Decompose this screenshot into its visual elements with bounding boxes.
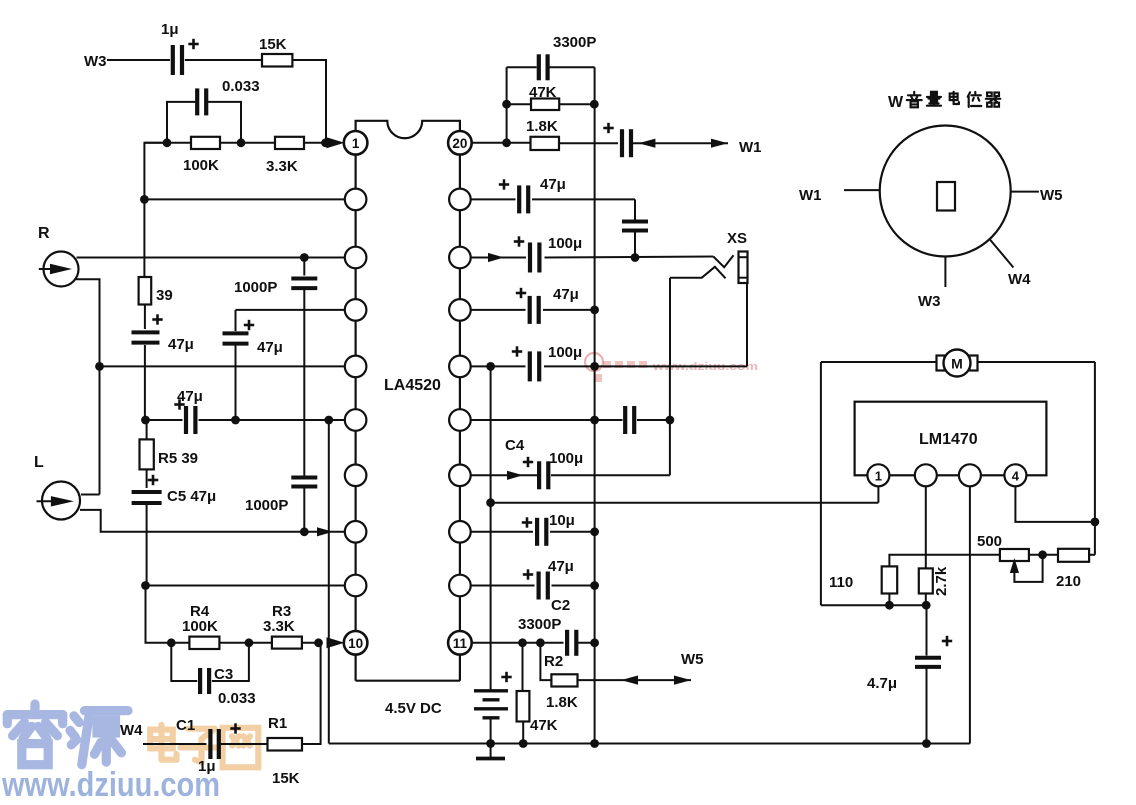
wire node A to 100K — [144, 142, 191, 144]
node A — [163, 138, 172, 147]
node 47K branch — [518, 638, 527, 647]
svg-text:1000P: 1000P — [234, 279, 277, 296]
node B — [237, 138, 246, 147]
IC pin 20 — [448, 131, 472, 155]
capacitor 4.7u — [926, 605, 928, 655]
ground symbol — [476, 757, 505, 761]
resistor 3.3K — [275, 137, 304, 149]
svg-text:100K: 100K — [182, 618, 218, 635]
wire row5 to pin 5 — [100, 365, 345, 367]
capacitor 47u row19 — [517, 185, 521, 213]
svg-text:1μ: 1μ — [161, 21, 179, 38]
svg-text:10: 10 — [348, 636, 363, 651]
capacitor row15 (nonpolar) — [623, 406, 627, 434]
node 500/210 — [1038, 550, 1047, 559]
LM1470 pin 2 — [915, 464, 937, 486]
capacitor C2 47u row12 — [536, 572, 540, 600]
svg-text:47K: 47K — [530, 717, 558, 734]
svg-text:210: 210 — [1056, 573, 1081, 590]
svg-text:1: 1 — [352, 136, 360, 151]
wire 3.3K to pin1 node — [304, 142, 326, 144]
wire C 47u to row6 — [144, 345, 146, 420]
svg-text:C4: C4 — [505, 437, 525, 454]
node LM feed — [486, 498, 495, 507]
svg-text:C2: C2 — [551, 597, 570, 614]
wire pin11 row — [471, 642, 564, 644]
svg-text:47μ: 47μ — [540, 176, 566, 193]
wire 1000P down through row4 — [303, 288, 305, 476]
svg-text:47μ: 47μ — [168, 336, 194, 353]
wire LM pin1 to feed — [877, 486, 879, 502]
resistor R5 39 (vertical) — [146, 420, 148, 439]
wire 2.7k to bottom row — [925, 594, 927, 606]
watermark char yuan — [70, 711, 128, 765]
svg-text:C5 47μ: C5 47μ — [167, 488, 216, 505]
svg-text:15K: 15K — [272, 770, 300, 787]
jack XS body — [739, 252, 748, 284]
IC pin 10 — [344, 631, 368, 655]
node row6 c — [324, 416, 333, 425]
wire 47K to rail — [522, 722, 524, 744]
wire pin18 row — [471, 257, 526, 259]
node row11/rail — [590, 638, 599, 647]
svg-text:3.3K: 3.3K — [266, 158, 298, 175]
capacitor 1u (electrolytic) — [171, 45, 175, 75]
wire 1000P no.2 to row8 — [303, 487, 305, 532]
svg-text:W3: W3 — [918, 293, 941, 310]
battery 4.5V DC — [490, 690, 492, 692]
IC pin 15 — [449, 409, 471, 431]
wire R1 up to pin10 node — [302, 643, 321, 744]
svg-text:4.7μ: 4.7μ — [867, 675, 897, 692]
svg-text:M: M — [951, 356, 963, 372]
svg-text:W1: W1 — [739, 139, 762, 156]
wire down to row10 — [146, 586, 172, 643]
wire row18 to XS — [545, 257, 714, 258]
wire XS lower drop — [669, 278, 671, 367]
wire 210 to right rail — [1089, 554, 1095, 556]
XS switch arm lower — [670, 267, 726, 279]
wire motor left vertical — [820, 362, 822, 605]
wire C1 to R1 — [219, 743, 268, 745]
wire pin15 row — [471, 419, 623, 421]
svg-text:47μ: 47μ — [548, 558, 574, 575]
wire row4 to pin 4 — [236, 309, 345, 311]
wire L lower tab to row8 — [80, 510, 345, 532]
svg-text:W4: W4 — [1008, 271, 1031, 288]
wire ground rail — [329, 743, 970, 745]
svg-text:R1: R1 — [268, 715, 287, 732]
IC pin 6 — [345, 409, 367, 431]
resistor 15K (top) — [262, 54, 292, 67]
LM1470 pin 1 — [867, 464, 889, 486]
capacitor to W1 (electrolytic) — [620, 129, 624, 157]
wire 500 wiper — [1014, 555, 1042, 582]
svg-text:39: 39 — [156, 287, 173, 304]
svg-text:www.dziuu.com: www.dziuu.com — [1, 766, 220, 800]
resistor 110 (vertical) — [882, 566, 898, 593]
svg-text:0.033: 0.033 — [222, 78, 260, 95]
svg-text:47μ: 47μ — [553, 286, 579, 303]
wire row16 to XS box — [544, 365, 747, 367]
capacitor 10u row13 — [535, 518, 539, 546]
IC pin 12 — [449, 575, 471, 597]
svg-text:W5: W5 — [681, 651, 704, 668]
IC pin 19 — [449, 189, 471, 211]
potentiometer 500 — [1000, 549, 1029, 561]
wire LM pin2 to 2.7k — [925, 486, 927, 568]
svg-text:LA4520: LA4520 — [384, 377, 441, 394]
node pin3/1000P — [300, 253, 309, 262]
svg-text:47μ: 47μ — [177, 388, 203, 405]
wire motor loop top left — [821, 361, 937, 363]
wire motor right vertical — [1094, 362, 1096, 555]
red stamp circle — [585, 353, 603, 371]
resistor 210 — [1058, 549, 1089, 562]
wire row9 to pin 9 — [146, 585, 345, 587]
svg-text:2.7k: 2.7k — [933, 566, 950, 596]
IC pin 4 — [345, 299, 367, 321]
svg-text:W4: W4 — [120, 722, 143, 739]
svg-text:R: R — [38, 225, 50, 242]
capacitor 0.033 bypass loop — [167, 102, 196, 143]
LM1470 pin 3 — [959, 464, 981, 486]
resistor 2.7k (vertical) — [919, 568, 933, 593]
arrow on pin14 row — [507, 471, 523, 480]
watermark char wang (orange) — [223, 728, 259, 768]
arrow into pin 10 — [327, 637, 345, 648]
coupling cap top-right — [634, 199, 636, 220]
node pin2 branch — [140, 195, 149, 204]
wire jack link vertical — [99, 366, 101, 494]
node row16 branch — [486, 362, 495, 371]
feedback left vertical — [506, 67, 508, 143]
svg-text:100μ: 100μ — [548, 344, 582, 361]
capacitor 47u (below 39) — [132, 330, 160, 334]
capacitor 3300P (top) — [507, 66, 537, 68]
wire XS body to box — [746, 283, 748, 366]
IC pin 3 — [345, 247, 367, 269]
wire to pin 2 — [144, 198, 344, 200]
wire battery to ground rail — [490, 718, 492, 757]
wire R 15K to pin1 node — [292, 60, 326, 143]
svg-text:100μ: 100μ — [548, 235, 582, 252]
svg-text:100K: 100K — [183, 157, 219, 174]
pot lead W3 — [944, 257, 946, 287]
wire node A to pin2 branch — [144, 143, 167, 200]
watermark char rong — [7, 704, 62, 765]
wire C5 to row9 — [146, 504, 148, 586]
wire 1.8K to W1 cap — [559, 142, 618, 144]
node row15/xs vertical — [666, 416, 675, 425]
svg-text:W3: W3 — [84, 53, 107, 70]
red stamp small marks — [594, 361, 647, 382]
svg-text:3.3K: 3.3K — [263, 618, 295, 635]
input jack R — [44, 252, 79, 287]
wire L upper tab — [81, 494, 100, 496]
IC pin 16 — [449, 356, 471, 378]
node row17/rail — [590, 306, 599, 315]
resistor 100K — [191, 137, 220, 149]
node row16/rail — [590, 362, 599, 371]
node pin20/fb — [502, 138, 511, 147]
IC pin 2 — [345, 189, 367, 211]
wire pin19 row — [471, 198, 516, 200]
input jack L — [42, 482, 80, 520]
wire 110 to bottom row — [888, 594, 890, 606]
resistor R1 15K — [268, 738, 303, 751]
IC pin 1 — [344, 131, 368, 155]
node 4.7u/rail — [922, 739, 931, 748]
node row15/rail — [590, 416, 599, 425]
IC pin 7 — [345, 465, 367, 487]
svg-text:15K: 15K — [259, 36, 287, 53]
svg-text:4.5V DC: 4.5V DC — [385, 700, 442, 717]
wire R2 to W5 with double arrow — [578, 679, 692, 681]
IC pin 18 — [449, 247, 471, 269]
resistor R2 1.8K — [540, 643, 551, 680]
wire W3 to C 1u — [107, 59, 170, 61]
wire pin12 row — [471, 585, 535, 587]
wire motor to right rail — [978, 361, 1095, 363]
svg-text:11: 11 — [453, 636, 468, 651]
capacitor 1000P no.2 — [291, 476, 317, 480]
resistor 47K (bottom, vertical) — [522, 643, 524, 691]
IC pin 8 — [345, 521, 367, 543]
wire pin17 row — [471, 309, 526, 311]
wire 500 row to 110 — [889, 555, 1000, 567]
svg-text:100μ: 100μ — [549, 450, 583, 467]
node 110 bottom — [885, 601, 894, 610]
capacitor C3 0.033 loop — [171, 643, 197, 681]
capacitor 47u row17 — [528, 296, 532, 324]
wire R jack lower tab — [76, 279, 100, 366]
wire R jack to pin 3 — [77, 257, 345, 259]
pot lead W4 — [990, 239, 1014, 268]
node 47K left — [502, 100, 511, 109]
svg-text:3300P: 3300P — [553, 34, 596, 51]
wire pin14 row C4 — [471, 474, 537, 476]
capacitor 3300P (bottom) — [565, 630, 569, 656]
svg-text:W5: W5 — [1040, 187, 1063, 204]
node 47K/rail — [519, 739, 528, 748]
node rail/ground — [590, 739, 599, 748]
pot lead W5 — [1011, 191, 1039, 193]
svg-text:R2: R2 — [544, 653, 563, 670]
svg-text:LM1470: LM1470 — [919, 431, 978, 448]
wire output rail (vertical) — [594, 67, 596, 743]
svg-text:C3: C3 — [214, 666, 233, 683]
svg-text:0.033: 0.033 — [218, 690, 256, 707]
node row13/rail — [590, 527, 599, 536]
node row8/1000P — [300, 527, 309, 536]
svg-text:L: L — [34, 454, 44, 471]
svg-text:20: 20 — [452, 136, 467, 151]
resistor 1.8K (top) — [531, 137, 560, 150]
LM1470 pin 4 — [1004, 464, 1026, 486]
capacitor 100u row18 — [528, 243, 532, 273]
svg-text:C1: C1 — [176, 717, 195, 734]
wire W4 to C1 — [143, 743, 206, 745]
node pin1 junction — [321, 138, 330, 147]
node row18/XS — [631, 253, 640, 262]
capacitor 100u row16 — [528, 351, 532, 381]
IC pin 9 — [345, 575, 367, 597]
motor M — [937, 356, 945, 371]
wire 500 to 210 — [1029, 554, 1058, 556]
wire long vertical row6 to rail — [328, 420, 330, 744]
svg-text:XS: XS — [727, 230, 747, 247]
node 47K right — [590, 100, 599, 109]
svg-text:110: 110 — [829, 574, 853, 591]
resistor 47K (top) — [507, 103, 531, 105]
capacitor 47u no.2 — [235, 310, 237, 331]
svg-text:1000P: 1000P — [245, 497, 288, 514]
svg-text:1.8K: 1.8K — [526, 118, 558, 135]
wire W1 with double arrow — [633, 142, 728, 144]
IC pin 13 — [449, 521, 471, 543]
wire pin20 to 1.8K — [471, 142, 531, 144]
wire 39 to C 47u — [144, 305, 146, 330]
capacitor C1 1u — [208, 729, 212, 759]
capacitor 1000P (upper) — [303, 258, 305, 276]
resistor 39 (vertical) — [139, 277, 152, 305]
IC pin 5 — [345, 356, 367, 378]
wire LM1470 feed line — [491, 502, 879, 504]
IC U1 LA4520 body — [356, 121, 460, 143]
svg-text:47K: 47K — [529, 84, 557, 101]
svg-text:10μ: 10μ — [549, 512, 575, 529]
resistor R3 3.3K — [272, 637, 302, 649]
node pin4/right rail — [1091, 518, 1100, 527]
IC U2 LM1470 body — [855, 402, 1047, 476]
node R4 right — [245, 638, 254, 647]
node battery/rail — [486, 739, 495, 748]
arrow on pin18 row — [488, 253, 504, 262]
wire pin16 row — [471, 365, 526, 367]
node row5 left — [95, 362, 104, 371]
wire LM pin4 to right rail — [1015, 486, 1095, 522]
svg-text:R5 39: R5 39 — [158, 450, 198, 467]
wire 100K to 3.3K — [220, 142, 275, 144]
wire R5 to C5 — [146, 469, 148, 488]
wire C 1u to R 15K — [185, 59, 262, 61]
node row12/rail — [590, 581, 599, 590]
potentiometer W body — [880, 126, 1011, 257]
IC pin 14 — [449, 465, 471, 487]
wire LM pin3 to ground rail — [969, 486, 971, 743]
wire row6 — [146, 419, 183, 421]
wire LM bottom row — [821, 604, 926, 606]
wire XS drop vertical — [669, 366, 671, 475]
resistor R4 100K — [171, 642, 189, 644]
node R4 left — [167, 638, 176, 647]
svg-text:500: 500 — [977, 533, 1002, 550]
wire pin13 row — [471, 531, 533, 533]
wire R4 to R3 — [219, 642, 272, 644]
node row6 b — [231, 416, 240, 425]
svg-text:3300P: 3300P — [518, 616, 561, 633]
node pin10 — [314, 638, 323, 647]
svg-text:W: W — [888, 94, 904, 111]
wire battery feed vertical — [490, 366, 492, 690]
node row6 a — [141, 416, 150, 425]
arrow into pin 8 — [317, 527, 333, 536]
capacitor C5 47u — [132, 490, 162, 494]
node 2.7k bottom — [922, 601, 931, 610]
capacitor C4 100u — [537, 461, 541, 489]
wire 4.7u to ground rail — [926, 668, 928, 744]
svg-text:47μ: 47μ — [257, 339, 283, 356]
XS switch arm upper — [713, 255, 733, 267]
svg-text:1: 1 — [875, 468, 882, 483]
capacitor 47u no.3 — [184, 406, 188, 434]
wire C4 to XS vertical — [551, 474, 670, 476]
potentiometer W shaft — [937, 182, 955, 211]
watermark char zi (orange) — [180, 729, 222, 763]
IC pin 17 — [449, 299, 471, 321]
wire R3 to pin10 node — [302, 642, 319, 644]
node R2 branch — [536, 638, 545, 647]
arrow into pin 1 — [327, 137, 345, 148]
svg-text:1μ: 1μ — [198, 758, 216, 775]
watermark char dian (orange) — [150, 725, 176, 760]
svg-text:W1: W1 — [799, 187, 822, 204]
wire branch down to R 39 — [143, 199, 145, 277]
IC pin 11 — [448, 631, 472, 655]
svg-text:4: 4 — [1012, 468, 1020, 483]
svg-text:1.8K: 1.8K — [546, 694, 578, 711]
node row9 left — [141, 581, 150, 590]
pot lead W1 — [844, 189, 880, 191]
